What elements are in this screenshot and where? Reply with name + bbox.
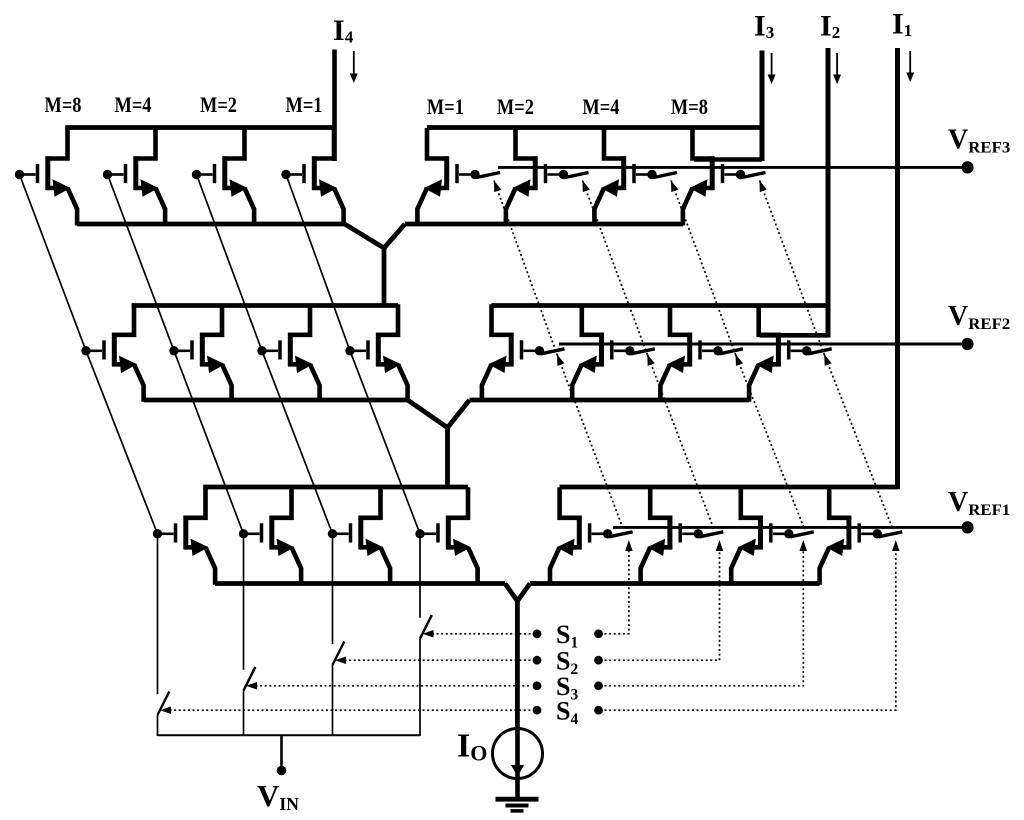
wire base column M=2 vertical to switch — [332, 534, 334, 644]
control line S3 to left switch — [256, 685, 532, 687]
node S3 right — [594, 681, 603, 690]
switch S4 (left, column M=8) — [158, 692, 170, 716]
switch S3 (row2 right M=4) — [720, 349, 744, 354]
transistor row3 left M=2 — [328, 487, 390, 585]
control line S1 to left switch — [432, 633, 531, 635]
transistor row2 right M=8 — [749, 304, 811, 402]
control line S1 to row3 switch — [605, 549, 629, 634]
switch S2 (row3 right M=2) — [700, 532, 724, 537]
control line S3 to row3 switch — [605, 549, 804, 686]
wire base column M=2 diagonal (rows 1-3) — [197, 175, 333, 534]
switch S2 (row2 right M=2) — [631, 349, 655, 354]
node S4 left — [533, 706, 542, 715]
current arrow I3 — [771, 53, 773, 75]
switch S1 (row2 right M=1) — [541, 349, 565, 354]
wire row1 right emitter rail — [405, 222, 683, 227]
svg-text:M=2: M=2 — [200, 92, 237, 117]
wire base column M=8 vertical to switch — [157, 534, 159, 694]
switch S3 (row3 right M=4) — [790, 532, 814, 537]
wire row2 right emitter rail — [470, 398, 750, 403]
transistor row3 left M=1 — [415, 487, 477, 585]
wire I4 feed vertical — [332, 50, 337, 162]
current arrow I1 — [909, 51, 911, 73]
svg-text:M=2: M=2 — [497, 94, 534, 119]
switch S4 (row1 right M=8) — [742, 173, 766, 178]
transistor row1 right M=8 — [683, 128, 745, 226]
wire I2 feed vertical — [826, 48, 831, 338]
transistor row3 left M=4 — [239, 487, 301, 585]
transistor row1 right M=1 — [417, 128, 479, 226]
wire base column M=4 switch to input bus — [243, 691, 245, 736]
svg-text:M=1: M=1 — [427, 94, 464, 119]
node S3 left — [533, 681, 542, 690]
transistor row2 right M=2 — [572, 304, 634, 402]
transistor row3 right M=2 — [641, 487, 703, 585]
wire row2 tail vertical — [445, 427, 450, 489]
wire row2 left emitter rail — [144, 398, 408, 403]
current arrow IO — [511, 765, 524, 777]
transistor row1 right M=2 — [506, 128, 568, 226]
node S1 right — [594, 629, 603, 638]
node VREF1 terminal — [961, 521, 973, 533]
transistor row1 left M=8 — [15, 128, 77, 226]
wire base column M=1 switch to input bus — [419, 639, 421, 736]
svg-text:M=4: M=4 — [582, 94, 619, 119]
wire I3 feed vertical — [760, 51, 765, 162]
wire base column M=8 switch to input bus — [157, 715, 159, 736]
wire ground stub — [515, 779, 520, 799]
transistor row3 right M=1 — [550, 487, 612, 585]
switch S1 (left, column M=1) — [420, 615, 432, 639]
wire VREF2 output line — [559, 343, 968, 346]
transistor row2 right M=1 — [482, 304, 544, 402]
switch S2 (left, column M=2) — [333, 642, 345, 666]
node VREF2 terminal — [961, 338, 973, 350]
transistor row3 right M=8 — [820, 487, 882, 585]
switch S3 (left, column M=4) — [244, 667, 256, 691]
svg-text:M=8: M=8 — [671, 94, 708, 119]
transistor row2 left M=4 — [169, 304, 231, 402]
control line S3 row1-row2 segment — [671, 181, 736, 355]
control line S4 to row3 switch — [605, 549, 896, 710]
wire row3 tail vertical — [515, 600, 520, 729]
node S2 left — [533, 656, 542, 665]
control line S2 row1-row2 segment — [583, 181, 648, 355]
transistor row2 left M=8 — [81, 304, 143, 402]
current source IO circle — [493, 729, 543, 779]
switch S3 (row1 right M=4) — [654, 173, 678, 178]
control line S2 row2-row3 segment — [647, 354, 714, 530]
switch S1 (row3 right M=1) — [609, 532, 633, 537]
wire row2 tail merge left diagonal — [408, 400, 448, 428]
control line S3 row2-row3 segment — [736, 354, 805, 530]
node S1 left — [533, 629, 542, 638]
control line S4 row2-row3 segment — [824, 354, 893, 530]
transistor row2 left M=1 — [345, 304, 407, 402]
svg-text:M=1: M=1 — [286, 92, 323, 117]
wire row3 tail merge left diagonal — [505, 584, 517, 602]
transistor row2 left M=2 — [257, 304, 319, 402]
wire IO through line — [515, 729, 520, 780]
control line S4 to left switch — [170, 709, 532, 711]
current arrow I4 — [353, 51, 355, 74]
control line S4 row1-row2 segment — [760, 181, 825, 355]
node S4 right — [594, 706, 603, 715]
wire row2 M=8 collector extension to I2 — [760, 333, 828, 338]
transistor row1 left M=1 — [281, 128, 343, 226]
wire base column M=4 vertical to switch — [243, 534, 245, 670]
wire row2 tail merge right diagonal — [448, 400, 470, 428]
wire base column M=1 diagonal (rows 1-3) — [286, 175, 420, 534]
wire row2 right collector rail — [492, 303, 829, 308]
transistor row2 right M=4 — [660, 304, 722, 402]
control line S2 to left switch — [345, 659, 532, 661]
transistor row1 right M=4 — [594, 128, 656, 226]
node VIN terminal — [277, 766, 287, 776]
wire row1 left emitter rail — [77, 222, 345, 227]
wire row1 tail vertical — [382, 247, 387, 308]
switch S2 (row1 right M=2) — [565, 173, 589, 178]
wire row1 tail merge left diagonal — [345, 224, 384, 248]
wire base column M=8 diagonal (rows 1-3) — [20, 175, 158, 534]
wire row3 tail merge right diagonal — [517, 584, 530, 602]
switch S4 (row3 right M=8) — [879, 532, 903, 537]
wire base column M=2 switch to input bus — [332, 665, 334, 736]
wire VIN bus — [158, 734, 421, 736]
transistor row3 right M=4 — [731, 487, 793, 585]
wire VREF1 output line — [613, 526, 968, 529]
transistor row1 left M=4 — [103, 128, 165, 226]
current arrow I2 — [836, 53, 838, 75]
control line S1 row2-row3 segment — [557, 354, 624, 530]
wire VIN stub — [280, 735, 283, 768]
ground — [496, 797, 539, 802]
node S2 right — [594, 656, 603, 665]
wire row1 right collector rail — [427, 125, 762, 130]
wire row1 tail merge right diagonal — [384, 224, 405, 248]
transistor row1 left M=2 — [192, 128, 254, 226]
control line S2 to row3 switch — [605, 549, 720, 660]
svg-text:M=4: M=4 — [115, 92, 152, 117]
transistor row3 left M=8 — [153, 487, 215, 585]
switch S1 (row1 right M=1) — [477, 173, 501, 178]
wire row1 M=8 collector extension to I3 — [694, 157, 762, 162]
wire row3 right emitter rail — [530, 581, 820, 586]
wire row3 left collector rail — [203, 485, 468, 490]
wire base column M=1 vertical to switch — [419, 534, 421, 618]
wire row2 left collector rail — [132, 303, 398, 308]
wire row3 right collector rail — [560, 485, 898, 490]
node VREF3 terminal — [961, 161, 973, 173]
wire row1 left collector rail — [65, 125, 334, 130]
wire I1 feed vertical — [895, 48, 900, 489]
wire row3 left emitter rail — [215, 581, 505, 586]
switch S4 (row2 right M=8) — [808, 349, 832, 354]
wire VREF3 output line — [498, 166, 968, 169]
wire base column M=4 diagonal (rows 1-3) — [108, 175, 244, 534]
control line S1 row1-row2 segment — [494, 181, 557, 355]
svg-text:M=8: M=8 — [45, 92, 82, 117]
